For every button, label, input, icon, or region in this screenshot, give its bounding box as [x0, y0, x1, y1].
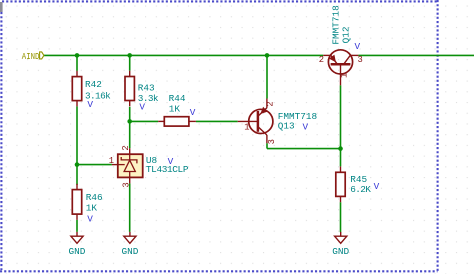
svg-text:R46: R46 — [86, 192, 103, 203]
svg-text:1: 1 — [244, 123, 249, 133]
svg-text:R42: R42 — [85, 79, 102, 90]
svg-text:V: V — [303, 122, 309, 133]
wire Q12 base down to node D — [340, 85, 342, 148]
svg-text:V: V — [87, 99, 93, 110]
resistor R46 1K — [72, 184, 103, 220]
wire R43 bottom to junction — [129, 107, 131, 122]
svg-text:GND: GND — [332, 246, 349, 257]
wire Q13 collector down — [266, 143, 268, 148]
svg-text:V: V — [355, 41, 361, 52]
wire R45 bottom to GND — [340, 202, 342, 232]
wire junction to U8 pin 2 — [129, 121, 131, 148]
svg-text:6.2K: 6.2K — [350, 184, 371, 195]
junction R42/U8 ref node — [75, 162, 80, 167]
wire Q13 collector to node D — [267, 148, 341, 150]
voltage probe V at R43 — [139, 101, 145, 112]
svg-text:Q12: Q12 — [340, 27, 351, 44]
svg-text:V: V — [139, 101, 145, 112]
ground (R46) — [69, 232, 86, 257]
wire U8 pin 3 to GND — [129, 183, 131, 232]
svg-text:2: 2 — [266, 101, 276, 106]
svg-text:V: V — [190, 107, 196, 118]
voltage reference U8 TL431CLP — [109, 145, 189, 187]
transistor Q12 FMMT718 (PNP, base down) — [319, 5, 363, 85]
resistor R44 1K — [158, 93, 196, 126]
resistor R45 6.2K — [336, 167, 371, 203]
svg-text:V: V — [87, 214, 93, 225]
junction R43/R44 node — [127, 119, 132, 124]
svg-text:1: 1 — [340, 73, 350, 78]
svg-text:AIND: AIND — [22, 51, 40, 62]
wire node D to R45 top — [340, 149, 342, 167]
voltage probe V at R44 — [190, 107, 196, 118]
ground (R45) — [332, 232, 349, 257]
svg-text:R43: R43 — [138, 83, 155, 94]
hierarchical label AIND — [22, 51, 44, 62]
svg-text:1: 1 — [109, 156, 114, 166]
junction node A (77,55) — [75, 53, 80, 58]
wire node B to R43 top — [129, 55, 131, 70]
svg-text:Q13: Q13 — [278, 121, 295, 132]
wire R42 bottom to R46 top — [76, 106, 78, 184]
wire node C to Q13 emitter — [266, 55, 268, 98]
wire R44 right to Q13 base — [196, 120, 238, 122]
junction node B (130,55) — [127, 53, 132, 58]
voltage probe V at Q13 — [303, 122, 309, 133]
svg-text:3: 3 — [267, 139, 277, 144]
svg-text:1K: 1K — [169, 104, 181, 115]
resistor R43 3.3k — [125, 71, 159, 107]
junction node C (267,55) — [265, 53, 270, 58]
ground (U8 pin 3) — [121, 232, 138, 257]
junction node D (340,149) — [338, 146, 343, 151]
wire Q12 collector to right edge — [358, 54, 474, 56]
svg-text:3: 3 — [358, 55, 363, 65]
svg-text:GND: GND — [121, 246, 138, 257]
voltage probe V at R42 — [87, 99, 93, 110]
voltage probe V at R46 — [87, 214, 93, 225]
svg-text:V: V — [374, 181, 380, 192]
svg-text:3: 3 — [121, 182, 131, 187]
voltage probe V at R45 — [374, 181, 380, 192]
wire node A to R42 top — [76, 55, 78, 71]
wire junction to R44 left — [130, 120, 159, 122]
svg-text:GND: GND — [69, 246, 86, 257]
wire AIND horizontal left — [44, 54, 323, 56]
wire junction to U8 pin 1 — [77, 164, 112, 166]
svg-text:V: V — [168, 156, 174, 167]
svg-text:1K: 1K — [86, 203, 98, 214]
svg-text:2: 2 — [121, 145, 131, 150]
voltage probe V at U8 — [168, 156, 174, 167]
svg-text:2: 2 — [319, 55, 324, 65]
wire R46 bottom to GND — [76, 220, 78, 232]
transistor Q13 FMMT718 (PNP, base left) — [238, 99, 318, 145]
resistor R42 3.16k — [72, 71, 111, 107]
voltage probe V at Q12 collector — [355, 41, 361, 52]
